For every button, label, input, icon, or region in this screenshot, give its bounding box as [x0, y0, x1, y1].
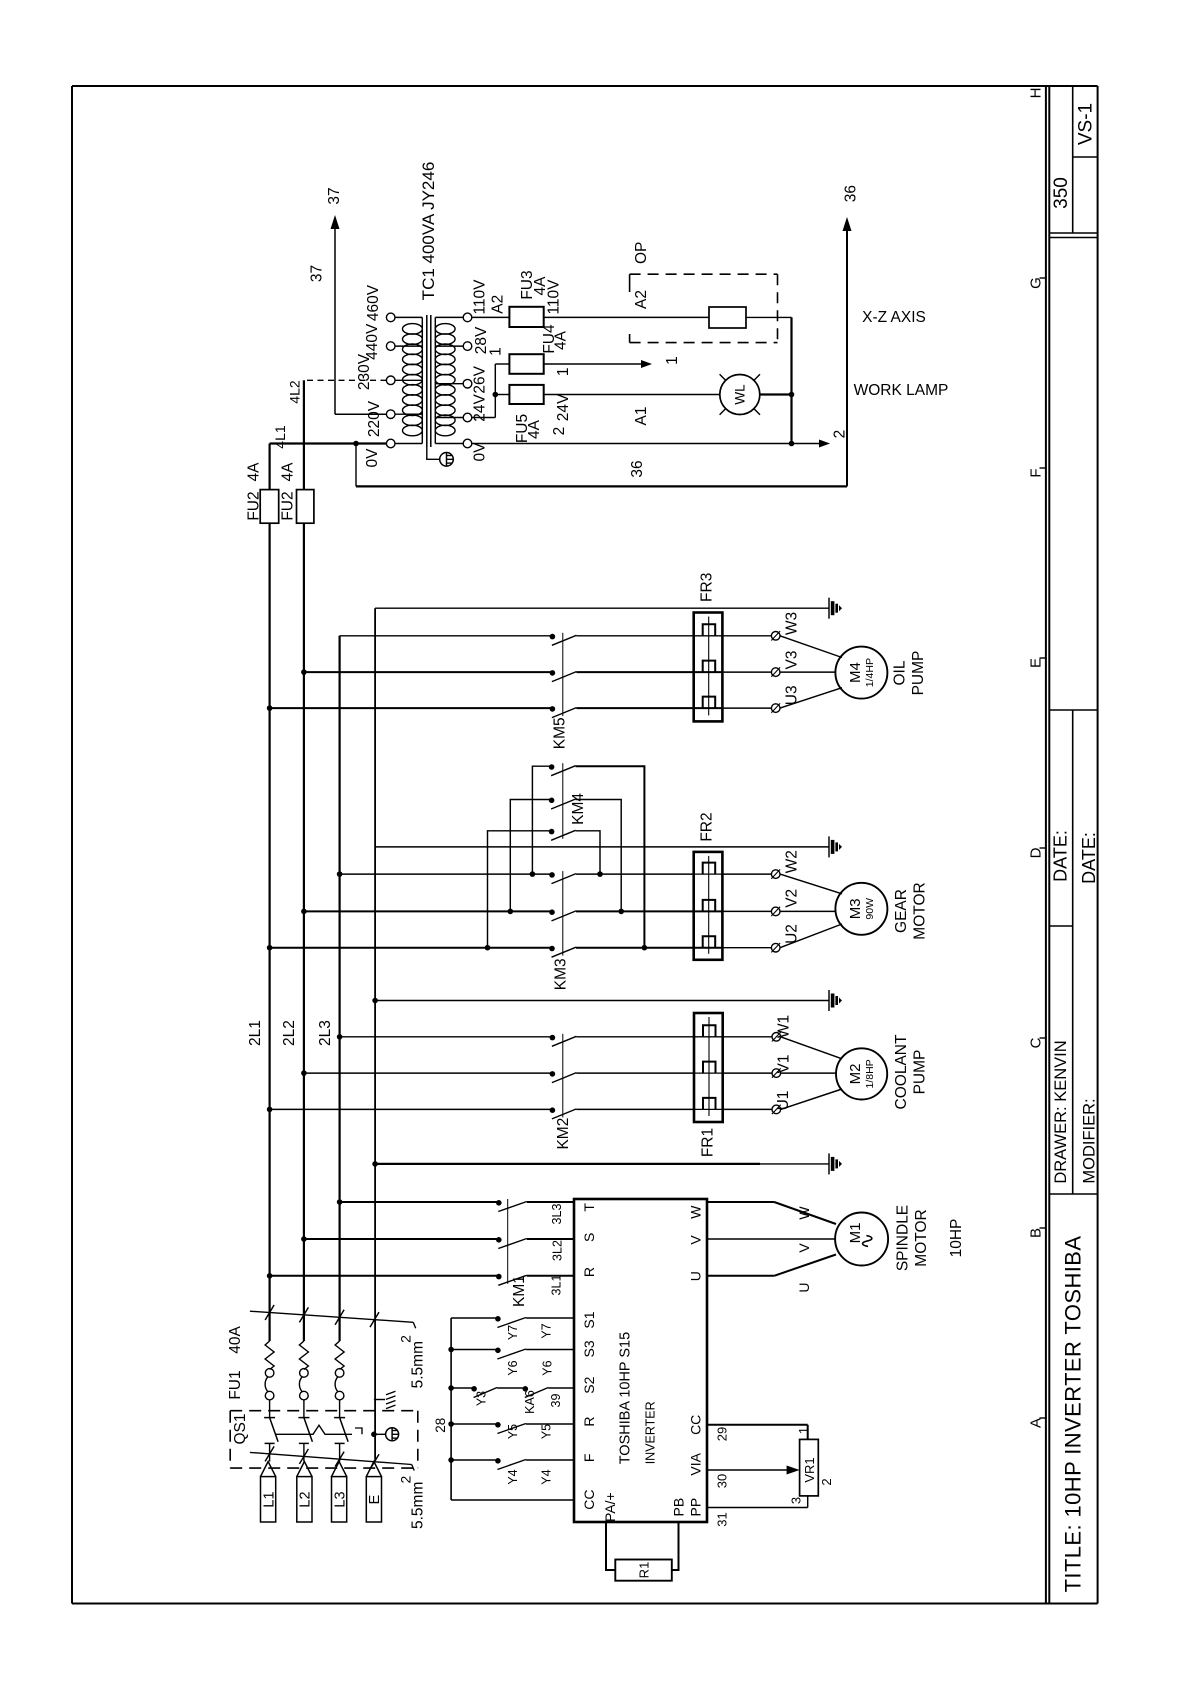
svg-text:TC1 400VA JY246: TC1 400VA JY246 — [419, 162, 438, 301]
svg-text:220V: 220V — [366, 400, 383, 437]
svg-text:E: E — [367, 1494, 383, 1504]
svg-text:MOTOR: MOTOR — [912, 882, 929, 939]
svg-text:PB: PB — [671, 1498, 687, 1517]
svg-text:S: S — [581, 1233, 597, 1242]
svg-text:Y5: Y5 — [540, 1424, 554, 1439]
svg-text:FU1: FU1 — [227, 1370, 244, 1399]
svg-text:KM4: KM4 — [570, 793, 587, 825]
svg-text:L3: L3 — [332, 1491, 348, 1507]
svg-text:26V: 26V — [472, 365, 489, 393]
svg-text:460V: 460V — [365, 284, 382, 321]
svg-text:A2: A2 — [489, 295, 506, 314]
svg-text:GEAR: GEAR — [893, 889, 910, 933]
svg-text:V2: V2 — [784, 889, 801, 908]
svg-text:Y4: Y4 — [540, 1469, 554, 1484]
svg-text:110V: 110V — [546, 279, 563, 315]
svg-text:V: V — [688, 1235, 704, 1245]
svg-text:Y7: Y7 — [506, 1325, 520, 1340]
svg-text:1: 1 — [487, 347, 504, 356]
svg-text:C: C — [1028, 1037, 1045, 1048]
svg-text:TOSHIBA 10HP S15: TOSHIBA 10HP S15 — [617, 1332, 633, 1464]
svg-text:28: 28 — [433, 1418, 448, 1433]
svg-text:Y4: Y4 — [506, 1469, 520, 1484]
svg-text:36: 36 — [629, 460, 646, 477]
svg-text:A: A — [1028, 1418, 1045, 1428]
svg-text:FU2: FU2 — [246, 491, 263, 520]
svg-text:4A: 4A — [526, 419, 543, 439]
svg-text:FU2: FU2 — [280, 491, 297, 520]
svg-text:3L2: 3L2 — [551, 1240, 565, 1261]
svg-text:30: 30 — [714, 1474, 729, 1488]
svg-text:U1: U1 — [775, 1091, 792, 1111]
svg-text:R1: R1 — [636, 1562, 651, 1579]
svg-text:2L1: 2L1 — [247, 1020, 264, 1046]
svg-text:1: 1 — [664, 356, 681, 365]
svg-text:1: 1 — [555, 367, 572, 376]
svg-text:2L2: 2L2 — [281, 1020, 298, 1046]
svg-text:3: 3 — [788, 1497, 803, 1504]
svg-text:VR1: VR1 — [802, 1457, 817, 1482]
svg-text:110V: 110V — [472, 279, 489, 315]
svg-text:Y7: Y7 — [540, 1323, 554, 1338]
svg-text:V3: V3 — [784, 651, 801, 670]
svg-text:CC: CC — [688, 1415, 704, 1435]
svg-text:∿: ∿ — [857, 1233, 879, 1250]
svg-text:Y5: Y5 — [506, 1424, 520, 1439]
svg-text:5.5mm: 5.5mm — [409, 1482, 426, 1529]
svg-text:PUMP: PUMP — [912, 1050, 929, 1095]
svg-text:DATE:: DATE: — [1050, 830, 1070, 882]
svg-text:E: E — [1028, 658, 1045, 668]
svg-text:H: H — [1028, 88, 1045, 99]
svg-text:CC: CC — [581, 1489, 597, 1509]
svg-text:A1: A1 — [633, 407, 650, 426]
svg-text:2: 2 — [832, 430, 849, 439]
svg-text:350: 350 — [1051, 177, 1072, 209]
svg-text:X-Z AXIS: X-Z AXIS — [862, 309, 926, 326]
svg-text:PUMP: PUMP — [910, 651, 927, 696]
svg-text:W2: W2 — [784, 850, 801, 873]
svg-text:230V: 230V — [356, 353, 373, 390]
svg-text:40A: 40A — [227, 1326, 244, 1354]
svg-text:MODIFIER:: MODIFIER: — [1080, 1098, 1098, 1183]
svg-text:KM5: KM5 — [552, 717, 569, 749]
svg-text:1/4HP: 1/4HP — [864, 658, 876, 687]
svg-text:VS-1: VS-1 — [1075, 103, 1096, 145]
svg-text:FR3: FR3 — [699, 573, 716, 602]
svg-text:KM1: KM1 — [511, 1275, 528, 1307]
svg-text:10HP: 10HP — [948, 1219, 965, 1258]
svg-text:0V: 0V — [472, 442, 489, 462]
svg-text:W3: W3 — [784, 612, 801, 635]
svg-text:S3: S3 — [581, 1340, 597, 1357]
svg-text:T: T — [581, 1203, 597, 1212]
svg-text:Y6: Y6 — [541, 1360, 555, 1375]
svg-text:S1: S1 — [581, 1311, 597, 1328]
svg-text:37: 37 — [309, 265, 326, 282]
svg-text:V1: V1 — [776, 1055, 793, 1074]
svg-text:WL: WL — [732, 384, 747, 405]
svg-text:M4: M4 — [847, 662, 864, 683]
svg-text:WORK LAMP: WORK LAMP — [854, 382, 949, 399]
svg-text:2: 2 — [551, 427, 568, 436]
svg-text:INVERTER: INVERTER — [644, 1401, 658, 1464]
svg-text:V: V — [796, 1243, 812, 1253]
svg-text:F: F — [581, 1454, 597, 1463]
svg-text:29: 29 — [714, 1427, 729, 1441]
svg-text:3L3: 3L3 — [550, 1204, 564, 1225]
svg-text:FR2: FR2 — [699, 812, 716, 841]
svg-text:VIA: VIA — [688, 1452, 704, 1475]
svg-text:QS1: QS1 — [232, 1413, 249, 1444]
svg-text:Y3: Y3 — [474, 1391, 488, 1406]
svg-text:4L1: 4L1 — [272, 425, 288, 449]
svg-text:DRAWER: KENVIN: DRAWER: KENVIN — [1052, 1040, 1070, 1183]
svg-text:W1: W1 — [776, 1015, 793, 1038]
svg-text:R: R — [581, 1417, 597, 1427]
svg-text:24V: 24V — [555, 393, 572, 421]
svg-text:G: G — [1028, 277, 1045, 289]
svg-text:2: 2 — [819, 1478, 834, 1485]
svg-text:1/8HP: 1/8HP — [864, 1059, 876, 1088]
svg-text:FR1: FR1 — [700, 1128, 717, 1157]
svg-text:90W: 90W — [864, 898, 876, 920]
svg-text:4A: 4A — [280, 462, 297, 482]
svg-text:MOTOR: MOTOR — [913, 1209, 930, 1266]
svg-text:0V: 0V — [364, 448, 381, 468]
svg-text:L2: L2 — [298, 1491, 314, 1507]
svg-text:KM3: KM3 — [553, 958, 570, 990]
svg-text:4L2: 4L2 — [287, 380, 303, 404]
svg-text:M3: M3 — [847, 898, 864, 919]
svg-text:M2: M2 — [847, 1063, 864, 1084]
svg-text:1: 1 — [796, 1427, 811, 1434]
svg-text:TITLE: 10HP INVERTER TOSHIB: TITLE: 10HP INVERTER TOSHIBA — [1060, 1236, 1085, 1593]
svg-text:PA/+: PA/+ — [602, 1492, 618, 1522]
svg-text:F: F — [1028, 468, 1045, 477]
svg-text:SPINDLE: SPINDLE — [895, 1205, 912, 1271]
svg-text:31: 31 — [714, 1512, 729, 1526]
svg-text:W: W — [688, 1205, 704, 1219]
svg-text:5.5mm: 5.5mm — [409, 1341, 426, 1388]
svg-text:COOLANT: COOLANT — [893, 1034, 910, 1109]
svg-text:4A: 4A — [553, 330, 570, 350]
svg-text:W: W — [796, 1206, 812, 1220]
svg-text:KA6: KA6 — [523, 1390, 537, 1414]
svg-text:Y6: Y6 — [506, 1360, 520, 1375]
svg-text:S2: S2 — [581, 1376, 597, 1393]
svg-text:3L1: 3L1 — [550, 1275, 564, 1296]
svg-text:37: 37 — [326, 187, 343, 204]
svg-text:U: U — [688, 1271, 704, 1281]
svg-text:36: 36 — [843, 185, 860, 202]
svg-text:DATE:: DATE: — [1079, 832, 1099, 884]
svg-text:2L3: 2L3 — [317, 1020, 334, 1046]
svg-text:A2: A2 — [633, 290, 650, 309]
svg-text:R: R — [581, 1267, 597, 1277]
svg-text:OIL: OIL — [891, 660, 908, 685]
svg-text:KM2: KM2 — [555, 1118, 572, 1150]
svg-text:L1: L1 — [261, 1491, 277, 1507]
svg-text:39: 39 — [549, 1394, 563, 1408]
svg-text:U: U — [796, 1283, 812, 1293]
svg-text:4A: 4A — [246, 462, 263, 482]
svg-text:B: B — [1028, 1228, 1045, 1238]
svg-text:PP: PP — [688, 1498, 704, 1517]
svg-text:D: D — [1028, 847, 1045, 858]
svg-text:OP: OP — [633, 242, 650, 264]
